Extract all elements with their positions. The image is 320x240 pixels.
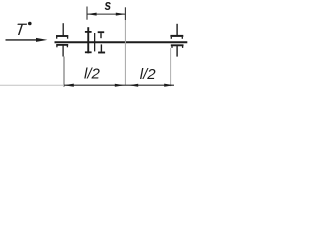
svg-text:l/2: l/2 <box>84 66 101 83</box>
svg-text:l/2: l/2 <box>140 66 157 83</box>
svg-text:s: s <box>105 0 112 13</box>
